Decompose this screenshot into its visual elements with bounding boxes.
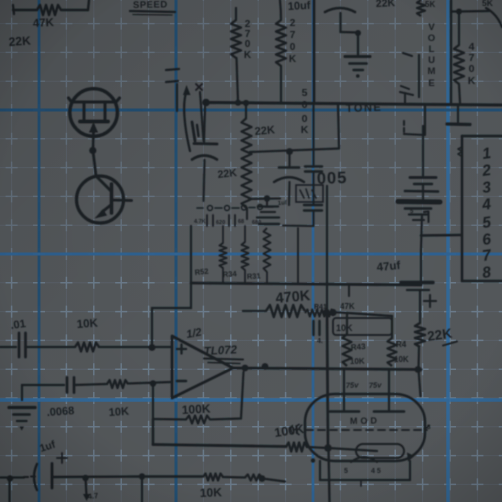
ink blotch	[192, 122, 195, 141]
wire	[458, 12, 460, 45]
node	[264, 195, 270, 201]
tube plate stems	[343, 370, 345, 411]
resistor R41 47K	[305, 310, 334, 317]
wire	[176, 84, 178, 111]
wire	[99, 346, 172, 348]
wire	[0, 476, 24, 478]
IC box U1	[462, 135, 502, 138]
wire	[327, 312, 328, 447]
wire	[92, 133, 95, 150]
node	[456, 9, 462, 15]
tube pin nub left	[297, 425, 300, 435]
resistor 470K horizontal	[266, 305, 305, 317]
wire	[74, 384, 107, 385]
plus sign 1uf	[57, 457, 67, 459]
resistor 270K a	[231, 20, 241, 58]
wire	[312, 211, 314, 226]
tube arrow	[407, 453, 415, 462]
tube base box	[319, 461, 321, 480]
wire	[307, 447, 328, 448]
node	[286, 148, 293, 155]
wire dashes	[403, 121, 405, 133]
ground symbol top	[345, 55, 370, 58]
resistor 22K right	[415, 323, 425, 347]
node main bus left end	[202, 99, 210, 107]
heater arc	[351, 457, 377, 462]
wire	[419, 291, 421, 323]
capacitor .01	[18, 333, 21, 357]
wire	[210, 419, 241, 420]
resistor 10K input	[75, 343, 99, 352]
node	[355, 30, 361, 36]
wire	[421, 216, 422, 251]
capacitor bar extra	[259, 223, 279, 225]
wire bus y284	[191, 283, 421, 285]
tube grid dashed	[306, 429, 427, 431]
resistor 100K to tube	[286, 443, 307, 452]
boxed label 10K	[333, 318, 392, 335]
resistor small bottom	[245, 475, 262, 481]
tube pin right	[425, 426, 430, 430]
node tube grid	[324, 444, 332, 452]
capacitor plates	[410, 176, 436, 179]
resistor 470K	[454, 45, 464, 84]
resistor 100K feedback	[186, 416, 210, 424]
wire	[391, 316, 393, 338]
capacitor b	[305, 165, 322, 167]
sub-box	[190, 226, 192, 283]
wire dashes	[24, 476, 28, 478]
wire	[339, 13, 341, 32]
node	[150, 380, 156, 386]
node	[242, 365, 249, 372]
node	[329, 309, 336, 316]
tube dot	[311, 458, 315, 462]
wire	[0, 346, 16, 348]
wire	[338, 105, 339, 148]
wire curve top right	[486, 8, 502, 27]
transistor Q1 (FET)	[70, 89, 118, 137]
wire	[280, 66, 282, 103]
wire	[404, 134, 425, 135]
node	[259, 475, 266, 482]
plus sign	[424, 300, 436, 302]
capacitor small	[312, 321, 314, 335]
wire	[52, 475, 142, 478]
node	[139, 473, 145, 479]
tiny caps	[206, 215, 208, 226]
ground symbol input	[21, 385, 23, 400]
capacitor bar under tone	[457, 105, 459, 122]
wire	[237, 58, 239, 102]
capacitor big plate	[398, 199, 440, 205]
wire	[418, 55, 420, 97]
potentiometer wiper arrow SPEED	[184, 93, 190, 151]
wire	[141, 477, 143, 502]
capacitor 10uf plate	[325, 8, 355, 12]
wire	[152, 419, 155, 445]
capacitor a	[288, 152, 290, 167]
wire	[419, 369, 421, 396]
wire vertical x=314	[313, 0, 316, 103]
wire	[280, 0, 281, 20]
resistor 270K b	[276, 20, 286, 66]
wire x=327 column	[326, 186, 328, 312]
capacitor 47uf	[401, 281, 433, 284]
wire	[243, 310, 266, 312]
tiny parts row	[208, 206, 213, 211]
resistor 22K tall	[245, 103, 247, 118]
wiper x mark	[196, 84, 202, 90]
node	[7, 475, 13, 481]
resistor R31	[264, 228, 271, 272]
node	[243, 100, 249, 106]
resistor 10K b	[107, 380, 128, 388]
node	[415, 366, 422, 373]
wire	[333, 312, 392, 316]
wire x=313 column	[312, 105, 314, 166]
wire to IC box	[421, 234, 461, 237]
resistor R52	[222, 226, 224, 243]
transistor Q2 (BJT)	[77, 176, 124, 223]
wire	[459, 84, 460, 103]
wire	[249, 197, 280, 200]
node	[82, 475, 88, 481]
wire input top-left	[13, 5, 14, 14]
wire below tube	[329, 448, 330, 502]
wiper stub	[404, 93, 406, 104]
wire	[312, 172, 314, 204]
wire	[422, 184, 424, 199]
wire vertical x=451	[450, 0, 452, 103]
wire	[223, 476, 245, 479]
wire bus y368	[232, 368, 421, 370]
node	[149, 344, 156, 351]
wire	[153, 418, 186, 421]
resistor 5K volume top	[417, 0, 425, 16]
capacitor c	[304, 204, 322, 206]
node	[323, 309, 330, 316]
op-amp U2	[172, 336, 233, 398]
capacitor trimmer marks	[166, 69, 179, 70]
pencil marks	[403, 53, 412, 56]
resistor 47K	[37, 5, 61, 15]
capacitor .0068	[66, 378, 69, 393]
ground bars	[405, 207, 431, 210]
resistor R34	[244, 226, 246, 242]
stub	[348, 285, 350, 296]
wire	[357, 33, 359, 55]
boxed label	[296, 185, 323, 202]
resistor R44 10K	[388, 338, 397, 366]
wire	[235, 8, 237, 20]
wire	[152, 384, 154, 419]
tube V1 envelope	[305, 394, 425, 461]
wire	[128, 382, 172, 384]
wire	[22, 384, 64, 386]
capacitor under pot	[204, 107, 205, 142]
wire	[451, 10, 459, 12]
wire	[86, 478, 87, 496]
capacitor stack	[266, 199, 268, 205]
wire main horizontal bus	[206, 103, 502, 106]
wire	[422, 126, 424, 176]
wire feedback upper	[151, 308, 153, 347]
wire	[417, 347, 420, 369]
wire	[61, 9, 88, 11]
node junction	[89, 147, 96, 154]
wire in tube	[328, 448, 377, 451]
capacitor 1uf	[34, 464, 37, 490]
resistor R43 10K	[346, 313, 348, 334]
resistor 10K bottom	[203, 474, 223, 481]
node	[262, 363, 269, 370]
tube cathode pill	[356, 444, 404, 458]
tick near stack	[424, 212, 429, 223]
node	[235, 100, 241, 106]
wire	[262, 479, 285, 482]
wire	[26, 346, 76, 348]
